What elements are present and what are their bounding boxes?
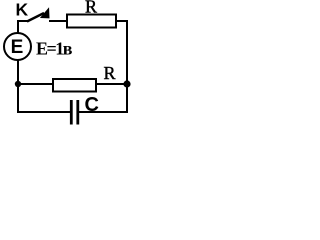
svg-text:E=1в: E=1в: [36, 39, 73, 59]
svg-text:E: E: [11, 37, 24, 58]
wire: left branch top (source to top wire): [17, 21, 19, 34]
wire: resistor R (top) to top-right corner and down right branch: [116, 21, 127, 84]
resistor R2 (middle): [53, 79, 96, 92]
capacitor C left plate: [70, 100, 73, 125]
wire: bottom-left segment (left branch to capacitor): [17, 111, 70, 113]
capacitor C right plate: [76, 100, 79, 125]
wire: top-left segment to switch hinge: [17, 20, 28, 22]
svg-text:K: K: [16, 0, 29, 20]
node: right junction dot: [123, 80, 130, 87]
switch K arrowhead: [41, 9, 49, 18]
wire: switch contact to resistor R (top): [49, 20, 66, 22]
switch K blade: [27, 13, 44, 22]
EMF source E (circle): [4, 33, 31, 60]
svg-text:R: R: [85, 0, 97, 17]
svg-text:R: R: [104, 63, 116, 83]
wire: middle branch left (node to resistor R middle): [18, 83, 52, 85]
wire: left branch bottom (source to bottom wire): [17, 59, 19, 113]
wire: bottom-right segment (capacitor to right branch): [79, 111, 128, 113]
svg-text:C: C: [85, 94, 99, 116]
node: left junction dot: [15, 81, 21, 87]
wire: middle branch right (resistor R middle to right node): [97, 83, 127, 85]
wire: right branch lower segment: [126, 84, 128, 113]
resistor R1 (top): [67, 15, 116, 28]
